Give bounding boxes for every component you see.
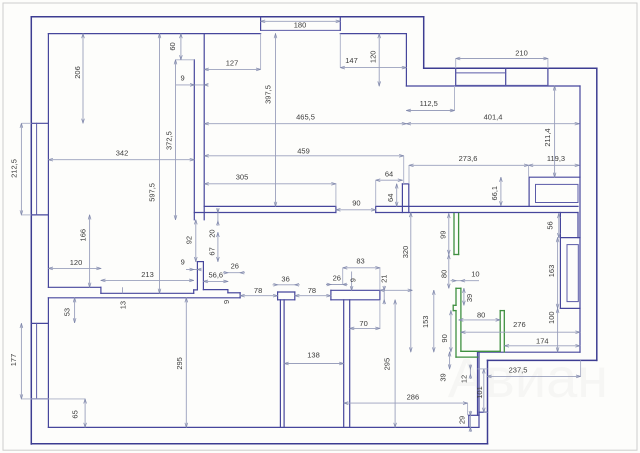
wire inner left wall upper bbox=[47, 34, 49, 288]
dim 26 left bbox=[223, 272, 245, 274]
svg-text:36: 36 bbox=[281, 274, 289, 283]
dim 101 bbox=[483, 369, 485, 412]
dim 112,5 bbox=[406, 110, 454, 112]
dim 153 bbox=[433, 290, 435, 352]
svg-text:9: 9 bbox=[348, 278, 357, 282]
svg-text:78: 78 bbox=[254, 286, 262, 295]
svg-text:120: 120 bbox=[70, 258, 83, 267]
wire outer top wall bbox=[31, 16, 423, 18]
svg-text:213: 213 bbox=[141, 270, 154, 279]
dim 166 bbox=[89, 215, 91, 287]
svg-text:56: 56 bbox=[545, 221, 554, 229]
dim 305 bbox=[204, 183, 336, 185]
dim 210 bbox=[456, 58, 548, 60]
dim 163 bbox=[557, 238, 559, 309]
dim 26 pier3 bbox=[326, 284, 348, 286]
dim 80 vertical bbox=[448, 255, 450, 289]
dim 60 bbox=[180, 34, 182, 60]
dim 100 bbox=[557, 308, 559, 352]
svg-text:459: 459 bbox=[297, 146, 310, 155]
dim 397,5 bbox=[275, 34, 277, 207]
green wall G3 horizontal bbox=[461, 350, 500, 352]
dim 65 bbox=[84, 399, 86, 428]
svg-text:210: 210 bbox=[515, 48, 528, 57]
wire inner top-right wall bbox=[406, 85, 580, 87]
svg-text:9: 9 bbox=[222, 300, 231, 304]
dim 9 left small bbox=[186, 269, 202, 271]
svg-text:Авиан: Авиан bbox=[448, 346, 608, 409]
svg-text:147: 147 bbox=[345, 56, 358, 65]
svg-text:206: 206 bbox=[73, 66, 82, 79]
dim 276 bbox=[461, 331, 580, 333]
svg-text:80: 80 bbox=[439, 270, 448, 278]
svg-text:465,5: 465,5 bbox=[296, 113, 315, 122]
dim 597,5 bbox=[159, 34, 161, 294]
bottom-right interior wall pair going down bbox=[477, 352, 479, 415]
svg-text:211,4: 211,4 bbox=[543, 128, 552, 146]
wire inner bottom wall bbox=[48, 426, 468, 428]
wire inner top wall left bbox=[48, 33, 260, 35]
wire inner top wall right of window bbox=[340, 33, 406, 35]
svg-text:166: 166 bbox=[79, 229, 88, 242]
bottom-right walls bbox=[478, 351, 581, 353]
dim 56 bbox=[558, 214, 560, 238]
svg-text:276: 276 bbox=[513, 320, 526, 329]
svg-text:177: 177 bbox=[9, 354, 18, 367]
svg-text:20: 20 bbox=[208, 229, 217, 237]
dim 273,6 bbox=[409, 164, 529, 166]
svg-text:26: 26 bbox=[333, 273, 341, 282]
dim 99 bbox=[448, 214, 450, 255]
dim 9 pier3 bbox=[351, 272, 353, 291]
svg-text:80: 80 bbox=[477, 310, 485, 319]
svg-text:70: 70 bbox=[359, 319, 367, 328]
dim 21 pier3 bbox=[383, 286, 385, 305]
dim 138 bbox=[284, 363, 344, 365]
svg-text:295: 295 bbox=[383, 358, 392, 371]
svg-text:597,5: 597,5 bbox=[148, 183, 157, 202]
dim 90 door bbox=[336, 209, 376, 211]
dim 120 bottom bbox=[48, 267, 101, 269]
dim 90 right bbox=[450, 311, 452, 352]
dim 177 bbox=[20, 323, 22, 399]
dim 66,1 bbox=[500, 177, 502, 206]
corridor wall door jamb caps bbox=[335, 206, 337, 212]
dim 12 bbox=[469, 365, 471, 380]
window top (180): box bbox=[260, 17, 262, 31]
wire outer bottom-right wall bbox=[488, 359, 597, 361]
wire outer bottom wall bbox=[31, 443, 487, 445]
svg-text:120: 120 bbox=[368, 51, 377, 64]
shaft right (163) bbox=[559, 213, 561, 309]
svg-text:163: 163 bbox=[547, 265, 556, 278]
svg-text:53: 53 bbox=[63, 308, 72, 316]
window top-right (210): box bbox=[455, 68, 457, 85]
stub W3 lower left bbox=[196, 262, 198, 290]
niche shaft top-right (66,1) bbox=[529, 176, 580, 178]
svg-text:21: 21 bbox=[380, 275, 389, 283]
dim unlabeled doorway right bbox=[380, 289, 412, 291]
svg-text:90: 90 bbox=[352, 199, 360, 208]
dim 465,5 bbox=[204, 123, 406, 125]
wall W1 west line bbox=[193, 60, 195, 220]
dim 36 bbox=[273, 284, 300, 286]
wire outer bottom-right vertical bbox=[487, 360, 489, 443]
dim 174 bbox=[504, 345, 580, 347]
dim 286 bbox=[344, 402, 468, 404]
svg-text:286: 286 bbox=[407, 392, 420, 401]
dim 320 bbox=[410, 213, 412, 352]
dim 372,5 bbox=[175, 60, 177, 220]
svg-text:397,5: 397,5 bbox=[264, 85, 273, 104]
dim 53 bbox=[74, 298, 76, 323]
dim 120 vertical bbox=[378, 34, 380, 86]
svg-text:99: 99 bbox=[438, 231, 447, 239]
svg-text:39: 39 bbox=[439, 373, 448, 381]
svg-text:92: 92 bbox=[185, 236, 194, 244]
svg-text:273,6: 273,6 bbox=[459, 154, 478, 163]
svg-text:153: 153 bbox=[421, 316, 430, 329]
dim 237,5 bbox=[487, 375, 581, 377]
dim 206 bbox=[82, 34, 84, 124]
dim 127 bbox=[204, 68, 260, 70]
dim 39 lower bbox=[449, 352, 451, 369]
wire inner top step vertical bbox=[405, 34, 407, 86]
dim 13 bbox=[122, 287, 124, 293]
svg-text:342: 342 bbox=[116, 149, 129, 158]
dim 295 left bbox=[185, 298, 187, 428]
svg-text:90: 90 bbox=[440, 334, 449, 342]
wall W1 east line bbox=[203, 34, 205, 220]
wall W1 top cap at 59.8 bbox=[176, 59, 195, 61]
dim 29 bbox=[469, 411, 471, 432]
dim 213 bbox=[101, 279, 194, 281]
svg-text:295: 295 bbox=[175, 357, 184, 370]
dim 70 bbox=[350, 327, 380, 329]
svg-text:212,5: 212,5 bbox=[10, 159, 19, 178]
dim 83 bbox=[343, 267, 380, 269]
svg-text:138: 138 bbox=[307, 351, 320, 360]
dim 9 top bbox=[176, 84, 209, 86]
svg-text:78: 78 bbox=[308, 286, 316, 295]
green wall G1 (99) bbox=[453, 214, 455, 255]
bottom-left room top wall bbox=[48, 286, 101, 288]
svg-text:10: 10 bbox=[471, 270, 479, 279]
wire inner left wall lower bbox=[47, 298, 49, 428]
green stub G4 bbox=[500, 310, 504, 312]
svg-text:65: 65 bbox=[70, 410, 79, 418]
svg-text:56,6: 56,6 bbox=[208, 271, 223, 280]
svg-text:127: 127 bbox=[226, 58, 239, 67]
dim 342 bbox=[48, 159, 194, 161]
dim 56,6 bbox=[203, 280, 228, 282]
svg-text:180: 180 bbox=[294, 21, 307, 30]
green wall G2 (153) with notch bbox=[456, 287, 461, 289]
svg-text:66,1: 66,1 bbox=[490, 186, 499, 201]
corridor wall W2 top line segments bbox=[204, 205, 336, 207]
dim 10 bbox=[451, 280, 480, 282]
dim 212,5 bbox=[20, 123, 22, 215]
dim 67 bbox=[217, 232, 219, 261]
svg-text:174: 174 bbox=[536, 337, 549, 346]
window left lower: cross lines and mid bbox=[31, 322, 48, 324]
svg-text:29: 29 bbox=[458, 416, 467, 424]
dim 39 upper bbox=[463, 288, 465, 305]
stub S1 near kitchen bbox=[401, 184, 403, 213]
svg-text:372,5: 372,5 bbox=[165, 131, 174, 150]
corridor wall W2 bottom line segments bbox=[194, 212, 336, 214]
dim 64 horizontal bbox=[376, 179, 403, 181]
dim 119,3 bbox=[529, 164, 580, 166]
svg-text:401,4: 401,4 bbox=[484, 112, 503, 121]
pier P3 with stem (wall between bottom rooms 2-3) bbox=[331, 289, 380, 291]
dim 147 bbox=[340, 67, 406, 69]
svg-text:64: 64 bbox=[386, 194, 395, 202]
dim 78 first bbox=[240, 295, 278, 297]
svg-text:26: 26 bbox=[231, 261, 239, 270]
svg-text:112,5: 112,5 bbox=[420, 99, 438, 108]
svg-text:9: 9 bbox=[181, 258, 185, 267]
wire outer left wall bbox=[30, 17, 32, 444]
svg-text:67: 67 bbox=[208, 247, 217, 255]
svg-text:100: 100 bbox=[547, 311, 556, 324]
dim 78 second bbox=[295, 295, 331, 297]
dim 64 vertical bbox=[396, 184, 398, 207]
pier P2 with stem (wall between bottom rooms 1-2) bbox=[278, 291, 295, 293]
svg-text:39: 39 bbox=[465, 294, 474, 302]
window left upper: cross lines and mid bbox=[31, 122, 48, 124]
svg-text:320: 320 bbox=[401, 246, 410, 259]
dim 180 (window) bbox=[261, 20, 341, 22]
dim 459 bbox=[204, 155, 404, 157]
dim 211,4 bbox=[554, 86, 556, 177]
svg-text:60: 60 bbox=[168, 42, 177, 50]
wire outer right wall bbox=[596, 68, 598, 360]
wire inner right wall bbox=[579, 86, 581, 352]
GREEN partitions bbox=[453, 214, 504, 358]
svg-text:9: 9 bbox=[181, 73, 185, 82]
svg-text:83: 83 bbox=[356, 257, 364, 266]
svg-text:64: 64 bbox=[385, 170, 393, 179]
dim 20 bbox=[217, 208, 219, 226]
dim 295 right bbox=[394, 300, 396, 428]
dim 401,4 bbox=[406, 123, 579, 125]
wire outer top-right wall bbox=[424, 67, 597, 69]
dim 80 horizontal bbox=[459, 319, 501, 321]
svg-text:13: 13 bbox=[118, 301, 127, 309]
wire outer top step vertical bbox=[423, 17, 425, 68]
svg-text:119,3: 119,3 bbox=[547, 154, 565, 163]
dim 92 bbox=[195, 220, 197, 262]
svg-text:305: 305 bbox=[236, 173, 249, 182]
